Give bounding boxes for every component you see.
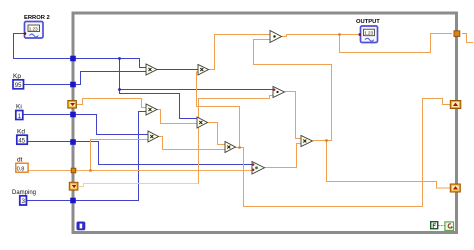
op-amp T4 multiply <box>198 65 209 76</box>
svg-text:ERROR 2: ERROR 2 <box>24 15 50 21</box>
wire T9 output branch down to right shift register 2 <box>327 141 451 189</box>
wire left shift register 2 pale segment <box>79 184 199 187</box>
svg-text:45: 45 <box>18 139 25 145</box>
wire Kd to T8 top input <box>27 142 252 165</box>
wire Kp to T1 bottom input <box>23 72 146 85</box>
svg-text:OUTPUT: OUTPUT <box>356 19 380 25</box>
wire OUTPUT branch to top-right tunnel <box>340 34 453 53</box>
wire T8 output to T9 bottom input <box>265 144 302 168</box>
node top-right tunnel <box>454 31 460 37</box>
wire T3 output to T7 top input <box>207 123 226 145</box>
svg-text:dt: dt <box>17 157 23 164</box>
node blue tunnel Kp <box>70 82 76 88</box>
svg-text:1.23: 1.23 <box>29 27 38 32</box>
node left shift register 1 <box>68 101 77 109</box>
wire T9 output to T10 bottom input <box>254 40 332 141</box>
node junction orange (339.5,34.5) <box>338 33 341 36</box>
wire error branch down to T5 top input <box>120 59 274 90</box>
node blue tunnel Ki <box>70 112 76 118</box>
iteration terminal i <box>77 222 86 231</box>
wire T4 output to T10 top input <box>209 35 271 70</box>
wire dt (orange) to T8 bottom input <box>28 170 252 172</box>
wire error branch to T3 top input <box>120 90 198 119</box>
svg-text:1.23: 1.23 <box>364 31 373 36</box>
op-amp T2 multiply <box>146 104 157 115</box>
node left shift register 2 <box>69 182 78 190</box>
node junction blue (119.5,58.5) <box>118 57 121 60</box>
wire left shift register 1 to T2 top input <box>77 99 146 108</box>
wire Damping to T2 bottom input <box>26 112 146 201</box>
node blue tunnel ERROR2 on left border <box>70 56 76 62</box>
svg-text:Kp: Kp <box>13 73 21 80</box>
node junction orange (90.5,170.5) <box>89 169 92 172</box>
wire shift register 2 to T5 bottom input <box>199 96 274 184</box>
wire T10 output to OUTPUT indicator <box>282 35 359 37</box>
F constant <box>431 222 438 229</box>
wire ERROR2 net (blue): indicator to tunnel to T1 top, junctions at (119,58) <box>14 34 147 68</box>
while loop frame <box>73 13 457 233</box>
op-amp T3 multiply <box>197 117 208 128</box>
wire T1 output to T4 input (blue) <box>157 69 198 71</box>
node blue tunnel Damping <box>70 198 76 204</box>
node orange tunnel dt <box>71 168 76 173</box>
svg-text:95: 95 <box>15 83 22 89</box>
svg-text:0.8: 0.8 <box>17 167 25 173</box>
op-amp T1 multiply Kp*error <box>146 64 157 75</box>
wire T7 output to right shift register 1 <box>235 99 450 207</box>
node blue tunnel Kd <box>70 139 76 145</box>
node right shift register 2 <box>450 184 460 192</box>
op-amp T10 add <box>270 31 282 43</box>
op-amp T8 divide with coercion dots <box>252 162 265 175</box>
node junction orange (239.5,147.5) <box>238 146 241 149</box>
wire T7 output branch up to T4 bottom input <box>197 72 240 148</box>
wire green F constant to loop condition <box>438 225 445 227</box>
op-amp T5 with coercion dot <box>273 87 285 98</box>
op-amp T9 multiply <box>301 136 313 147</box>
wire T5 output to T9 top input <box>285 92 301 139</box>
wire dt branch up to T6 bottom input <box>91 140 149 171</box>
wire Ki to T6 top input <box>22 115 148 135</box>
node junction blue (119.5,89.5) <box>118 88 121 91</box>
op-amp T6 multiply <box>148 131 159 142</box>
node right shift register 1 <box>450 101 461 109</box>
svg-text:Ki: Ki <box>16 104 22 111</box>
wire T6 output to T7 bottom input <box>158 137 225 150</box>
wire exiting loop from top-right tunnel <box>462 34 473 43</box>
node junction orange (326.5,141) <box>325 139 328 142</box>
loop condition terminal <box>445 222 454 231</box>
wire T2 output to T3 bottom input <box>157 110 198 124</box>
op-amp T7 multiply <box>225 142 236 153</box>
